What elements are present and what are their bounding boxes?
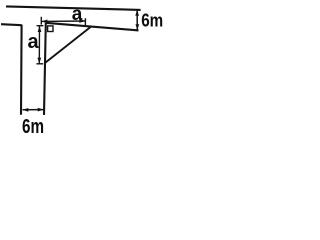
- diagonal brace (haunch hypotenuse): [45, 27, 91, 63]
- right-angle marker square at brace corner: [48, 26, 53, 32]
- column left flange line: [20, 25, 23, 115]
- svg-text:6m: 6m: [141, 10, 163, 31]
- dimension 6m (column width) right arrowhead: [38, 108, 44, 112]
- beam top chord line: [6, 6, 141, 9]
- dimension a (vertical) extension tick bottom: [36, 63, 43, 65]
- dimension 6m (beam depth) top arrowhead: [135, 10, 139, 16]
- dimension a (horizontal) left arrowhead: [41, 20, 47, 24]
- beam bottom chord line (right of column): [46, 23, 139, 31]
- dimension a (vertical) bottom arrowhead: [37, 58, 41, 64]
- svg-text:a: a: [27, 31, 39, 53]
- dimension 6m (beam depth) bottom arrowhead: [136, 24, 140, 30]
- dimension 6m (column width) line: [23, 109, 44, 111]
- dimension 6m (column width) left arrowhead: [22, 108, 28, 112]
- dimension a (horizontal) right arrowhead: [79, 19, 85, 23]
- dimension a (vertical) line: [38, 26, 40, 64]
- column right flange line: [44, 23, 46, 115]
- dimension 6m (beam depth) vertical line: [136, 10, 138, 30]
- svg-text:6m: 6m: [22, 116, 44, 136]
- dimension a (horizontal) extension tick right: [84, 18, 86, 25]
- dimension a (horizontal) extension tick left: [40, 17, 42, 25]
- dimension a (vertical) extension tick top: [37, 25, 44, 27]
- dimension a (horizontal) line: [42, 20, 86, 22]
- beam bottom chord line (left stub to image edge): [1, 24, 22, 25]
- dimension a (vertical) top arrowhead: [38, 26, 42, 32]
- svg-text:a: a: [72, 4, 83, 25]
